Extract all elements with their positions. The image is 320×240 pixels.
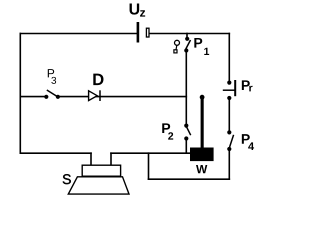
switch P4 contact dots bbox=[227, 130, 231, 151]
wire bottom-left rail bbox=[20, 152, 91, 154]
wire left rail bbox=[19, 34, 21, 154]
label P1 bbox=[194, 38, 209, 55]
wire P4 bottom riser bbox=[228, 149, 230, 179]
label P4 bbox=[242, 134, 254, 150]
battery Uz long plate bbox=[137, 22, 140, 43]
label P2 bbox=[162, 123, 173, 139]
wire speaker left stub bbox=[90, 153, 92, 165]
wire bottom-middle rail bbox=[111, 152, 191, 154]
wire middle rail left bbox=[20, 96, 46, 98]
switch P4 blade bbox=[230, 135, 234, 147]
label D bbox=[93, 74, 103, 85]
speaker S frame box bbox=[82, 165, 120, 176]
wire drop junction bbox=[148, 153, 150, 179]
wire P2 bottom drop bbox=[185, 139, 187, 154]
diode D body bbox=[89, 90, 100, 101]
battery Uz short plate bbox=[146, 28, 149, 37]
label P3 bbox=[48, 69, 56, 84]
switch P2 blade bbox=[187, 127, 191, 135]
switch P1 contact dots bbox=[184, 37, 189, 53]
wire bottom-right run bbox=[149, 178, 230, 180]
wire speaker right stub bbox=[110, 153, 112, 165]
wire P1-to-P2 vertical bbox=[185, 51, 187, 126]
wire top-left segment bbox=[20, 33, 137, 35]
microphone W plunger bar bbox=[201, 97, 204, 148]
speaker S cone bbox=[68, 177, 129, 194]
label S bbox=[63, 174, 71, 184]
microphone W body block bbox=[190, 148, 214, 162]
microphone W plunger dot bbox=[200, 95, 205, 100]
label Uz bbox=[130, 3, 146, 16]
wire top-right segment bbox=[149, 33, 229, 35]
relay contact Pr terminal dots bbox=[227, 81, 231, 101]
wire right rail upper bbox=[228, 34, 230, 83]
label W bbox=[196, 165, 207, 173]
switch P1 blade bbox=[186, 40, 191, 49]
wire right rail Pr-to-P4 bbox=[228, 98, 230, 132]
label Pr bbox=[242, 80, 253, 91]
switch P3 contact dots bbox=[44, 95, 60, 99]
switch P1 actuator (pull knob) bbox=[174, 40, 180, 53]
relay contact Pr blade bar bbox=[223, 80, 235, 96]
switch P2 contact dots bbox=[184, 124, 188, 141]
switch P3 blade bbox=[47, 90, 57, 96]
wire middle rail right bbox=[58, 96, 186, 98]
wire P1 stub from top rail bbox=[186, 34, 188, 39]
